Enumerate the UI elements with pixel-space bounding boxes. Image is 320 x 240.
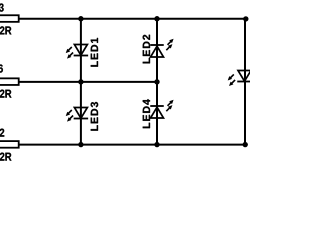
junction node middle col2: [154, 79, 159, 84]
junction node top col2: [154, 16, 159, 21]
resistor R6 value 22R: [0, 90, 11, 98]
LED4 label: [143, 99, 150, 128]
LED3: [66, 108, 88, 122]
resistor R6: [0, 78, 19, 85]
junction node top col1: [78, 16, 83, 21]
junction node bottom right corner: [243, 142, 248, 147]
LED2: [150, 39, 173, 57]
junction node top right corner: [243, 16, 248, 21]
resistor R3 designator label: [0, 3, 4, 11]
resistor R3: [0, 15, 19, 22]
resistor R2: [0, 141, 19, 148]
wire: bottom row horizontal: [19, 144, 247, 146]
wire: top row horizontal: [19, 18, 247, 20]
junction node bottom col1: [78, 142, 83, 147]
resistor R6 designator label: [0, 64, 3, 72]
LED4: [150, 100, 173, 118]
wire: column 1 vertical: [80, 19, 82, 145]
junction node bottom col2: [154, 142, 159, 147]
wire: right column vertical: [244, 19, 246, 147]
LED3 label: [91, 102, 98, 131]
LED1: [66, 45, 88, 59]
junction node middle col1: [78, 79, 83, 84]
LED1 label: [91, 38, 98, 67]
LED2 label: [143, 35, 150, 64]
wire: middle row horizontal: [19, 81, 157, 83]
wire: column 2 vertical: [156, 19, 158, 145]
resistor R3 value 22R: [0, 26, 11, 34]
resistor R2 value 22R: [0, 153, 11, 161]
LED5 (right, partially cut off): [228, 71, 252, 87]
resistor R2 designator label: [0, 129, 4, 137]
